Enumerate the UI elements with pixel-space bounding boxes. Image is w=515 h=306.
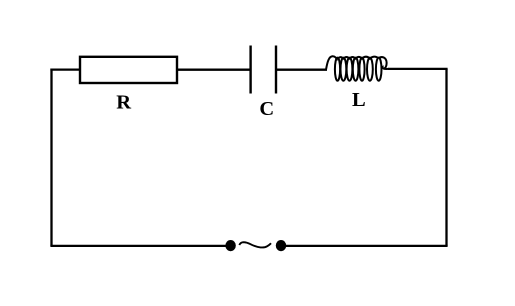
svg-text:C: C: [259, 98, 274, 120]
wire left vertical: [50, 69, 52, 247]
AC source tilde: [239, 242, 271, 247]
source terminal left dot: [225, 240, 235, 251]
wire bottom right segment: [286, 245, 448, 247]
wire right vertical: [445, 69, 447, 246]
svg-text:L: L: [352, 89, 366, 111]
wire resistor to capacitor: [177, 69, 250, 71]
capacitor C1 right plate: [275, 46, 277, 94]
source terminal right dot: [276, 240, 286, 251]
inductor L1: [326, 56, 389, 81]
wire top-left horizontal: [50, 68, 80, 70]
wire bottom left segment: [50, 245, 226, 247]
wire inductor to right corner: [388, 68, 448, 70]
capacitor C1 left plate: [249, 46, 251, 94]
svg-text:R: R: [116, 91, 131, 113]
resistor R1: [80, 57, 177, 83]
wire capacitor to inductor: [277, 69, 327, 71]
